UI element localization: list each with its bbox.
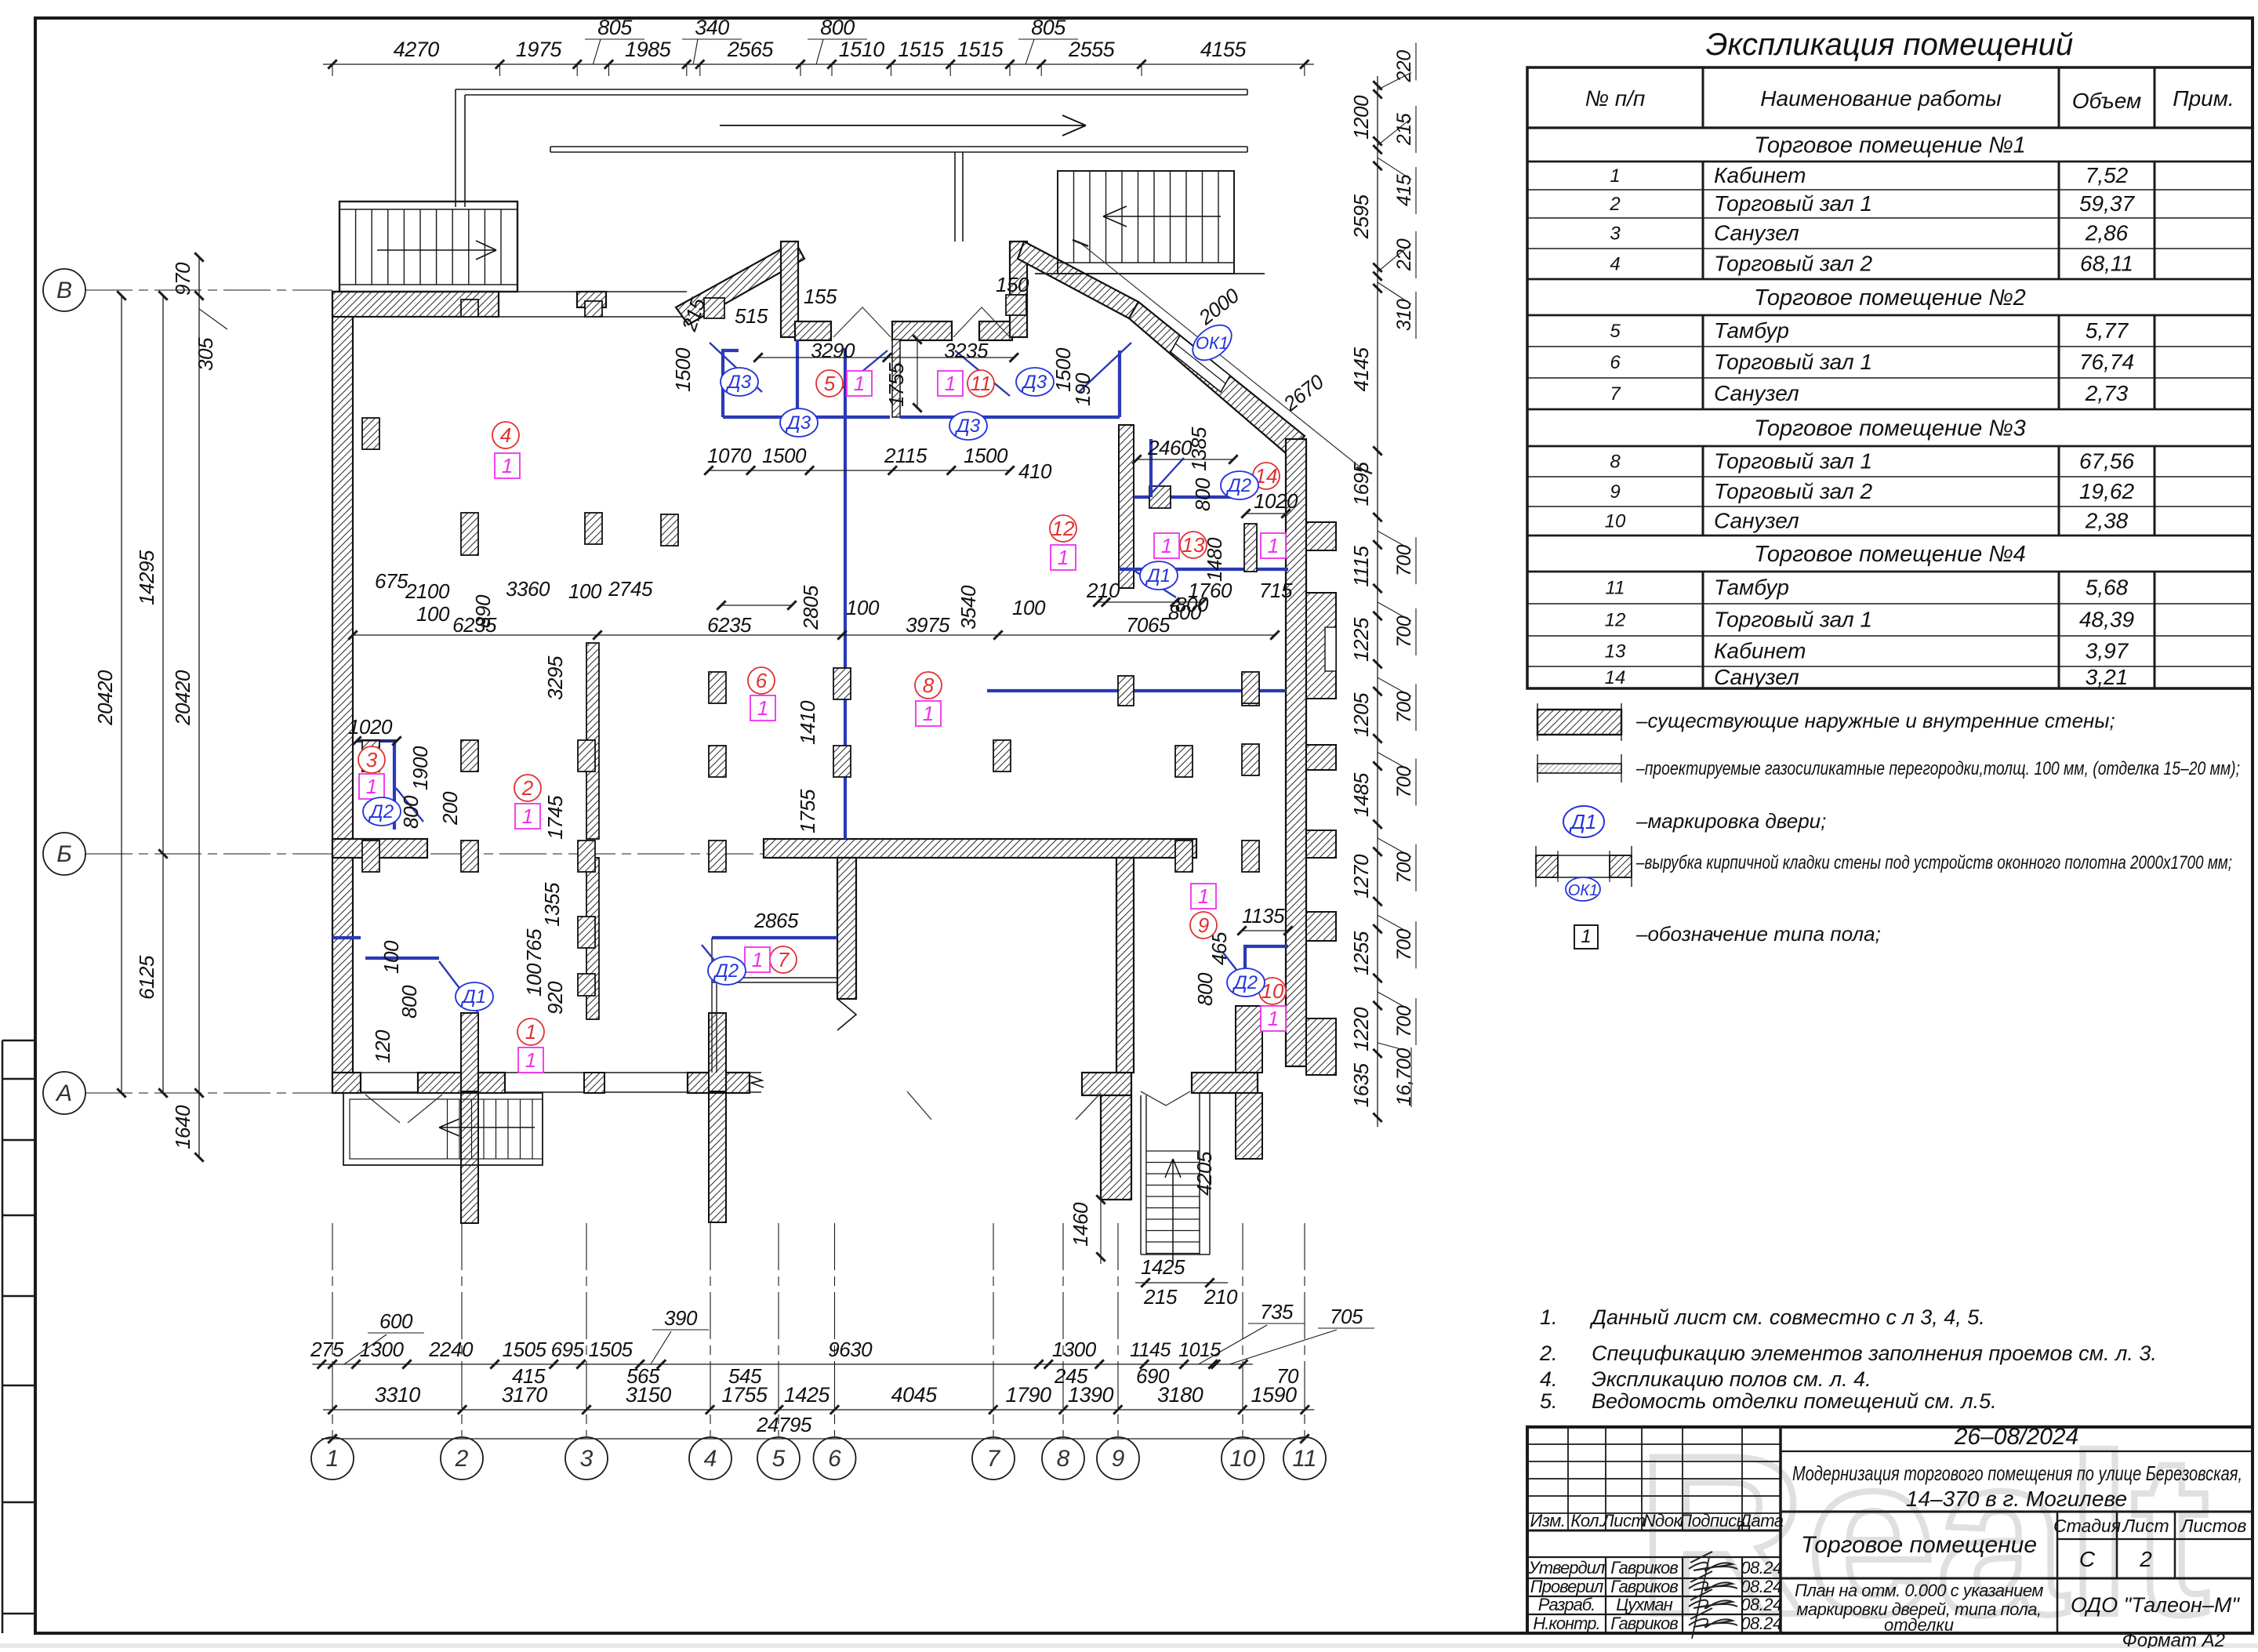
svg-text:Лист: Лист — [1601, 1511, 1646, 1530]
svg-text:1135: 1135 — [1242, 904, 1285, 928]
svg-text:1300: 1300 — [360, 1338, 405, 1361]
svg-text:1270: 1270 — [1349, 854, 1373, 899]
svg-text:155: 155 — [804, 285, 837, 308]
svg-text:1200: 1200 — [1349, 95, 1373, 140]
svg-text:10: 10 — [1605, 511, 1626, 532]
svg-text:1: 1 — [1161, 534, 1172, 557]
svg-text:1.: 1. — [1540, 1305, 1558, 1329]
svg-text:675: 675 — [375, 569, 408, 593]
svg-text:340: 340 — [695, 16, 729, 39]
svg-text:4.: 4. — [1540, 1367, 1558, 1391]
svg-text:1070: 1070 — [707, 444, 752, 467]
svg-text:Nдок: Nдок — [1643, 1511, 1683, 1530]
svg-text:4: 4 — [500, 423, 511, 447]
svg-text:отделки: отделки — [1884, 1615, 1954, 1635]
svg-text:1: 1 — [522, 804, 533, 828]
svg-text:2: 2 — [455, 1446, 469, 1472]
svg-text:–существующие наружные и внутр: –существующие наружные и внутренние стен… — [1635, 709, 2115, 732]
svg-text:1: 1 — [945, 372, 956, 395]
svg-text:3295: 3295 — [543, 655, 567, 700]
svg-text:805: 805 — [597, 16, 633, 39]
svg-text:4045: 4045 — [891, 1383, 938, 1407]
svg-text:Кол.: Кол. — [1570, 1511, 1603, 1530]
svg-text:800: 800 — [820, 16, 855, 39]
svg-text:Д1: Д1 — [1569, 810, 1597, 833]
svg-text:1: 1 — [752, 948, 763, 971]
svg-text:Торговое помещение №1: Торговое помещение №1 — [1754, 133, 2026, 158]
svg-text:План на отм. 0.000 с указанием: План на отм. 0.000 с указанием — [1795, 1581, 2043, 1600]
svg-text:7: 7 — [1610, 383, 1621, 405]
svg-text:1: 1 — [1610, 165, 1620, 187]
svg-text:3540: 3540 — [957, 585, 980, 630]
svg-text:19,62: 19,62 — [2079, 479, 2134, 503]
svg-text:1500: 1500 — [964, 444, 1008, 467]
svg-text:Д3: Д3 — [725, 372, 752, 393]
svg-text:3,21: 3,21 — [2086, 665, 2129, 689]
svg-text:150: 150 — [996, 273, 1029, 296]
svg-text:ОК1: ОК1 — [1196, 333, 1229, 353]
svg-text:3975: 3975 — [906, 613, 950, 637]
svg-text:1755: 1755 — [721, 1383, 768, 1407]
svg-text:3: 3 — [1610, 223, 1621, 245]
svg-text:Торговое помещение №3: Торговое помещение №3 — [1754, 416, 2026, 441]
svg-text:215: 215 — [1143, 1285, 1178, 1309]
svg-text:5,77: 5,77 — [2086, 318, 2129, 343]
svg-text:800: 800 — [399, 795, 423, 829]
svg-text:Кабинет: Кабинет — [1714, 163, 1806, 187]
svg-text:Листов: Листов — [2180, 1516, 2247, 1536]
svg-text:765: 765 — [522, 928, 546, 962]
svg-text:20420: 20420 — [93, 670, 117, 726]
svg-text:Санузел: Санузел — [1714, 509, 1799, 533]
svg-text:100: 100 — [522, 963, 546, 997]
svg-text:48,39: 48,39 — [2079, 608, 2134, 632]
svg-text:1: 1 — [854, 372, 865, 395]
svg-text:700: 700 — [1393, 929, 1415, 961]
svg-text:Данный лист см. совместно с л: Данный лист см. совместно с л 3, 4, 5. — [1589, 1305, 1985, 1329]
svg-text:1515: 1515 — [957, 38, 1004, 61]
svg-text:С: С — [2079, 1547, 2096, 1571]
svg-text:№ п/п: № п/п — [1585, 86, 1646, 111]
svg-text:5.: 5. — [1540, 1389, 1558, 1413]
svg-text:700: 700 — [1393, 766, 1415, 798]
svg-text:2865: 2865 — [753, 909, 799, 932]
svg-text:695: 695 — [551, 1338, 585, 1361]
svg-text:2115: 2115 — [884, 444, 928, 467]
svg-text:800: 800 — [398, 985, 421, 1018]
svg-text:3235: 3235 — [944, 339, 989, 362]
svg-text:390: 390 — [664, 1306, 698, 1330]
svg-text:8: 8 — [1057, 1446, 1070, 1472]
svg-text:1: 1 — [502, 454, 513, 477]
svg-text:1755: 1755 — [796, 789, 819, 833]
svg-text:Б: Б — [56, 841, 72, 867]
svg-text:4155: 4155 — [1200, 38, 1247, 61]
svg-text:Д2: Д2 — [368, 801, 394, 822]
svg-text:700: 700 — [1393, 1005, 1415, 1037]
svg-text:2.: 2. — [1539, 1342, 1558, 1365]
svg-text:220: 220 — [1393, 50, 1415, 83]
svg-text:11: 11 — [1606, 578, 1625, 599]
svg-text:2: 2 — [2139, 1547, 2152, 1571]
svg-text:100: 100 — [416, 602, 450, 626]
svg-text:Д2: Д2 — [1232, 972, 1258, 993]
svg-text:Торговый зал 1: Торговый зал 1 — [1714, 608, 1872, 632]
svg-text:4145: 4145 — [1349, 347, 1373, 391]
svg-text:24795: 24795 — [756, 1413, 812, 1436]
svg-text:275: 275 — [310, 1338, 344, 1361]
svg-text:1515: 1515 — [898, 38, 945, 61]
svg-text:3360: 3360 — [506, 577, 550, 601]
svg-text:700: 700 — [1393, 615, 1415, 648]
svg-text:16,700: 16,700 — [1393, 1048, 1415, 1106]
svg-text:190: 190 — [1071, 372, 1095, 406]
svg-text:Д3: Д3 — [954, 416, 981, 437]
svg-text:68,11: 68,11 — [2080, 252, 2133, 276]
svg-text:2595: 2595 — [1349, 194, 1373, 239]
svg-text:Гавриков: Гавриков — [1610, 1614, 1678, 1633]
svg-text:Объем: Объем — [2072, 89, 2141, 113]
svg-text:210: 210 — [1086, 579, 1120, 602]
svg-text:Н.контр.: Н.контр. — [1533, 1614, 1599, 1633]
svg-text:1900: 1900 — [408, 746, 432, 790]
svg-text:3: 3 — [366, 748, 378, 772]
svg-text:08.24: 08.24 — [1741, 1577, 1782, 1596]
svg-text:7065: 7065 — [1126, 613, 1171, 637]
svg-text:700: 700 — [1393, 545, 1415, 577]
svg-text:1: 1 — [1058, 546, 1069, 569]
svg-text:5: 5 — [772, 1446, 786, 1472]
svg-text:1390: 1390 — [1068, 1383, 1114, 1407]
svg-text:100: 100 — [846, 596, 880, 619]
svg-text:1755: 1755 — [884, 362, 908, 407]
svg-text:705: 705 — [1330, 1305, 1363, 1328]
svg-text:1485: 1485 — [1349, 772, 1373, 817]
svg-text:5: 5 — [824, 372, 836, 395]
svg-text:В: В — [56, 278, 72, 303]
svg-text:Экспликация помещений: Экспликация помещений — [1706, 27, 2073, 62]
svg-text:1500: 1500 — [671, 347, 695, 392]
svg-text:1385: 1385 — [1187, 427, 1211, 471]
svg-text:Д1: Д1 — [460, 986, 486, 1008]
svg-text:100: 100 — [1012, 596, 1046, 619]
svg-text:1020: 1020 — [1254, 489, 1298, 513]
svg-text:11: 11 — [1292, 1446, 1316, 1472]
svg-text:Кабинет: Кабинет — [1714, 639, 1806, 663]
svg-text:5,68: 5,68 — [2086, 575, 2129, 600]
svg-text:7,52: 7,52 — [2086, 163, 2129, 187]
svg-text:2: 2 — [1609, 194, 1620, 215]
svg-text:14–370 в г. Могилеве: 14–370 в г. Могилеве — [1906, 1487, 2127, 1511]
svg-text:08.24: 08.24 — [1741, 1595, 1782, 1614]
svg-text:9: 9 — [1610, 481, 1620, 503]
svg-text:1220: 1220 — [1349, 1007, 1373, 1051]
svg-text:Тамбур: Тамбур — [1714, 575, 1789, 600]
svg-text:2: 2 — [521, 776, 534, 800]
svg-text:76,74: 76,74 — [2079, 350, 2134, 374]
svg-text:2460: 2460 — [1147, 436, 1193, 459]
svg-text:7: 7 — [778, 948, 790, 971]
svg-text:2745: 2745 — [608, 577, 653, 601]
svg-text:Изм.: Изм. — [1530, 1511, 1566, 1530]
svg-text:Торговый зал 2: Торговый зал 2 — [1714, 479, 1872, 503]
svg-text:Подпись: Подпись — [1679, 1511, 1745, 1530]
svg-text:100: 100 — [568, 579, 602, 603]
svg-text:2,86: 2,86 — [2085, 221, 2129, 245]
svg-text:310: 310 — [1393, 299, 1415, 331]
svg-text:Формат А2: Формат А2 — [2122, 1630, 2225, 1648]
svg-text:1745: 1745 — [543, 795, 567, 840]
svg-text:2565: 2565 — [727, 38, 775, 61]
svg-text:1: 1 — [1198, 884, 1209, 908]
svg-text:13: 13 — [1605, 641, 1626, 663]
svg-text:9: 9 — [1198, 913, 1209, 937]
svg-text:Торговый зал 1: Торговый зал 1 — [1714, 449, 1872, 474]
svg-text:200: 200 — [438, 791, 462, 826]
svg-text:Санузел: Санузел — [1714, 221, 1799, 245]
svg-text:Тамбур: Тамбур — [1714, 318, 1789, 343]
svg-text:800: 800 — [1191, 477, 1214, 511]
svg-text:7: 7 — [987, 1446, 1001, 1472]
svg-text:67,56: 67,56 — [2079, 449, 2134, 474]
svg-text:Разраб.: Разраб. — [1538, 1595, 1595, 1614]
svg-text:700: 700 — [1393, 851, 1415, 884]
svg-text:1985: 1985 — [625, 38, 672, 61]
svg-text:1020: 1020 — [348, 715, 393, 739]
svg-text:Спецификацию элементов заполне: Спецификацию элементов заполнения проемо… — [1592, 1342, 2157, 1365]
svg-text:1: 1 — [1581, 926, 1591, 947]
svg-text:800: 800 — [1193, 972, 1217, 1006]
svg-text:515: 515 — [735, 304, 768, 328]
svg-text:3,97: 3,97 — [2086, 639, 2129, 663]
svg-text:12: 12 — [1052, 517, 1075, 540]
svg-text:Д2: Д2 — [713, 960, 739, 982]
svg-text:10: 10 — [1229, 1446, 1256, 1472]
svg-text:–обозначение типа пола;: –обозначение типа пола; — [1635, 922, 1881, 946]
svg-text:3170: 3170 — [502, 1383, 548, 1407]
svg-text:1: 1 — [1268, 1007, 1279, 1030]
svg-text:1145: 1145 — [1130, 1339, 1171, 1361]
svg-text:Торговое помещение №4: Торговое помещение №4 — [1754, 542, 2026, 567]
svg-text:1: 1 — [326, 1446, 339, 1472]
svg-text:1460: 1460 — [1069, 1202, 1092, 1247]
svg-text:20420: 20420 — [171, 670, 194, 726]
svg-text:1500: 1500 — [762, 444, 807, 467]
svg-text:Д3: Д3 — [785, 412, 811, 434]
svg-text:Наименование работы: Наименование работы — [1760, 86, 2002, 111]
svg-text:1115: 1115 — [1349, 546, 1373, 587]
svg-text:8: 8 — [923, 674, 935, 697]
svg-text:Модернизация торгового помещен: Модернизация торгового помещения по улиц… — [1792, 1461, 2242, 1485]
svg-text:2,38: 2,38 — [2085, 509, 2129, 533]
svg-text:700: 700 — [1393, 692, 1415, 724]
svg-text:8: 8 — [1610, 452, 1621, 473]
svg-text:Торговый зал 1: Торговый зал 1 — [1714, 191, 1872, 216]
svg-text:1255: 1255 — [1349, 931, 1373, 975]
svg-text:1355: 1355 — [540, 882, 564, 927]
svg-text:Д2: Д2 — [1225, 475, 1251, 496]
svg-text:415: 415 — [1393, 174, 1415, 206]
svg-text:Санузел: Санузел — [1714, 381, 1799, 405]
svg-text:6125: 6125 — [135, 955, 158, 1000]
svg-text:6: 6 — [756, 669, 768, 692]
svg-text:1300: 1300 — [1052, 1338, 1097, 1361]
svg-text:2555: 2555 — [1068, 38, 1116, 61]
svg-text:3: 3 — [580, 1446, 594, 1472]
svg-text:1510: 1510 — [839, 38, 885, 61]
svg-text:5: 5 — [1610, 321, 1621, 342]
svg-text:Прим.: Прим. — [2173, 86, 2234, 111]
svg-text:890: 890 — [471, 594, 495, 628]
svg-text:215: 215 — [1393, 113, 1415, 146]
svg-text:1790: 1790 — [1005, 1383, 1051, 1407]
svg-text:–маркировка двери;: –маркировка двери; — [1635, 809, 1826, 833]
svg-text:715: 715 — [1259, 579, 1293, 602]
svg-text:100: 100 — [379, 940, 403, 974]
svg-text:Проверил: Проверил — [1530, 1577, 1603, 1596]
svg-text:1505: 1505 — [503, 1338, 547, 1361]
svg-text:1410: 1410 — [796, 700, 819, 745]
svg-text:1: 1 — [757, 696, 768, 720]
svg-text:–вырубка кирпичной кладки стен: –вырубка кирпичной кладки стены под устр… — [1635, 852, 2232, 873]
svg-text:ОК1: ОК1 — [1568, 882, 1598, 899]
svg-text:2100: 2100 — [405, 579, 450, 603]
svg-text:1: 1 — [525, 1020, 536, 1044]
svg-text:Гавриков: Гавриков — [1610, 1558, 1678, 1578]
svg-text:2805: 2805 — [799, 585, 822, 630]
svg-text:Стадия: Стадия — [2053, 1516, 2121, 1536]
svg-text:1015: 1015 — [1178, 1339, 1221, 1361]
svg-text:Лист: Лист — [2121, 1516, 2169, 1536]
svg-text:1635: 1635 — [1349, 1062, 1373, 1107]
svg-text:08.24: 08.24 — [1741, 1614, 1782, 1633]
svg-text:12: 12 — [1605, 610, 1626, 631]
svg-text:Санузел: Санузел — [1714, 665, 1799, 689]
svg-text:4205: 4205 — [1193, 1151, 1216, 1196]
svg-text:9: 9 — [1112, 1446, 1125, 1472]
svg-text:Д1: Д1 — [1145, 565, 1171, 586]
svg-text:4: 4 — [704, 1446, 717, 1472]
svg-text:1225: 1225 — [1349, 617, 1373, 662]
svg-text:Торговое помещение: Торговое помещение — [1801, 1532, 2037, 1558]
svg-text:1425: 1425 — [784, 1383, 831, 1407]
svg-text:800: 800 — [1175, 593, 1209, 616]
svg-text:11: 11 — [971, 372, 992, 395]
svg-text:1: 1 — [525, 1048, 536, 1072]
svg-text:4270: 4270 — [394, 38, 440, 61]
svg-text:Д3: Д3 — [1021, 372, 1047, 393]
svg-text:Дата: Дата — [1737, 1511, 1783, 1530]
svg-text:3310: 3310 — [375, 1383, 421, 1407]
svg-text:Гавриков: Гавриков — [1610, 1577, 1678, 1596]
svg-text:Торговый зал 1: Торговый зал 1 — [1714, 350, 1872, 374]
svg-text:6: 6 — [828, 1446, 841, 1472]
svg-text:120: 120 — [371, 1029, 394, 1063]
svg-text:Торговый зал 2: Торговый зал 2 — [1714, 252, 1872, 276]
svg-text:6235: 6235 — [707, 613, 752, 637]
svg-text:1: 1 — [366, 775, 377, 798]
svg-text:600: 600 — [379, 1309, 413, 1333]
svg-text:14295: 14295 — [135, 550, 158, 605]
svg-text:1590: 1590 — [1251, 1383, 1297, 1407]
svg-text:9630: 9630 — [828, 1338, 873, 1361]
svg-text:2240: 2240 — [428, 1338, 474, 1361]
svg-text:Торговое помещение №2: Торговое помещение №2 — [1754, 285, 2026, 310]
svg-text:Цухман: Цухман — [1616, 1595, 1672, 1614]
svg-text:Экспликацию полов см. л. 4.: Экспликацию полов см. л. 4. — [1592, 1367, 1871, 1391]
svg-text:305: 305 — [194, 337, 217, 371]
svg-text:3180: 3180 — [1157, 1383, 1203, 1407]
svg-text:1975: 1975 — [516, 38, 563, 61]
svg-text:59,37: 59,37 — [2079, 191, 2135, 216]
svg-text:6: 6 — [1610, 352, 1621, 373]
svg-text:14: 14 — [1605, 667, 1626, 688]
svg-text:08.24: 08.24 — [1741, 1558, 1782, 1578]
svg-text:210: 210 — [1203, 1285, 1238, 1309]
svg-text:1: 1 — [923, 702, 934, 725]
svg-text:1205: 1205 — [1349, 692, 1373, 737]
svg-text:3290: 3290 — [811, 339, 855, 362]
svg-text:805: 805 — [1031, 16, 1066, 39]
svg-text:1640: 1640 — [171, 1105, 194, 1149]
svg-text:410: 410 — [1018, 459, 1052, 483]
svg-text:1: 1 — [1268, 534, 1279, 557]
svg-text:ОДО "Талеон–М": ОДО "Талеон–М" — [2071, 1593, 2240, 1617]
svg-text:–проектируемые газосиликатные: –проектируемые газосиликатные перегородк… — [1635, 758, 2240, 779]
svg-text:2,73: 2,73 — [2085, 381, 2129, 405]
svg-text:26–08/2024: 26–08/2024 — [1954, 1424, 2079, 1450]
svg-text:970: 970 — [171, 262, 194, 296]
svg-text:1425: 1425 — [1141, 1255, 1185, 1279]
svg-text:Утвердил: Утвердил — [1528, 1558, 1605, 1578]
svg-text:220: 220 — [1393, 238, 1415, 271]
svg-text:4: 4 — [1610, 254, 1620, 275]
svg-text:920: 920 — [543, 981, 567, 1015]
svg-text:1505: 1505 — [589, 1338, 633, 1361]
svg-text:13: 13 — [1182, 533, 1205, 557]
svg-text:3150: 3150 — [626, 1383, 672, 1407]
svg-text:А: А — [55, 1080, 72, 1106]
svg-text:735: 735 — [1260, 1300, 1294, 1323]
